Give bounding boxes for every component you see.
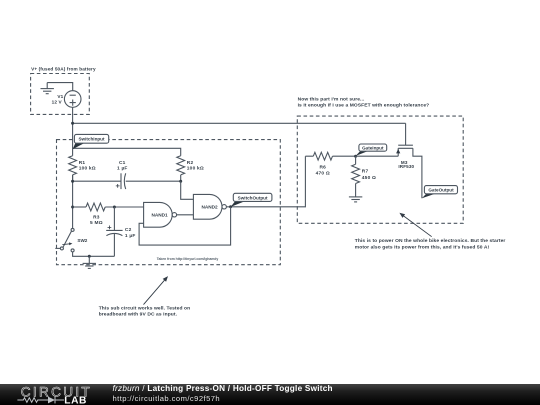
- ground (battery): [41, 83, 54, 94]
- svg-text:12 V: 12 V: [52, 99, 63, 104]
- wire V1 bottom to SW2 (main left rail): [72, 107, 74, 228]
- junction ground rail: [88, 255, 91, 258]
- wire C1 right to R2 bottom: [126, 175, 181, 181]
- flag GateInput: [356, 144, 387, 156]
- wire gate node to M3: [356, 155, 399, 157]
- wire NAND2 output rail to right: [226, 156, 305, 207]
- R3 labels: [90, 214, 103, 226]
- svg-text:R2: R2: [187, 160, 194, 166]
- junction C2 top: [113, 206, 116, 209]
- battery enclosure dashed box: [31, 74, 90, 115]
- svg-text:C1: C1: [119, 160, 126, 166]
- junction gate node: [354, 155, 357, 158]
- resistor R1: [69, 156, 77, 175]
- svg-text:100 kΩ: 100 kΩ: [187, 166, 204, 172]
- SW2 actuation arrow: [62, 242, 72, 245]
- wire C2 top lead: [113, 207, 115, 230]
- nand gate NAND2: [193, 194, 226, 219]
- svg-text:R6: R6: [320, 164, 327, 170]
- capacitor C1: [121, 173, 126, 189]
- R6 labels: [316, 164, 330, 176]
- wire SW2 bottom to ground rail: [73, 252, 115, 256]
- nand gate NAND1: [144, 202, 177, 227]
- annotation bottom left text: [99, 305, 191, 317]
- svg-text:1 µF: 1 µF: [117, 166, 128, 172]
- right sub-circuit dashed box: [297, 116, 463, 223]
- flag GateOutput: [422, 186, 458, 199]
- ground (left box): [83, 256, 96, 268]
- junction R1 bottom: [71, 180, 74, 183]
- svg-text:motor also gets its power from: motor also gets its power from this, and…: [355, 244, 490, 250]
- flag SwitchInput: [73, 134, 109, 149]
- flag SwitchOutput: [231, 193, 272, 207]
- junction R2 bottom: [179, 180, 182, 183]
- resistor R3: [86, 203, 105, 211]
- R1 labels: [79, 160, 96, 172]
- svg-text:100 kΩ: 100 kΩ: [79, 166, 96, 172]
- svg-text:This is to power ON the whole: This is to power ON the whole bike elect…: [355, 238, 506, 244]
- C1 polarity plus: [116, 184, 120, 188]
- annotation bottom left arrow: [144, 276, 169, 305]
- inner top rail wire (SwitchInput net): [73, 148, 181, 155]
- SW2 label: [77, 238, 87, 243]
- wire rail to R3: [73, 206, 86, 208]
- svg-text:1 µF: 1 µF: [125, 233, 136, 239]
- svg-text:Taken from http://tinyurl.com/: Taken from http://tinyurl.com/lghamdy: [157, 257, 219, 261]
- svg-text:IRF530: IRF530: [398, 164, 414, 169]
- taken-from annotation text: [157, 257, 219, 261]
- wire ground to V1 top: [47, 83, 72, 91]
- svg-text:Now this part I'm not sure...: Now this part I'm not sure...: [298, 97, 365, 103]
- svg-text:450 Ω: 450 Ω: [362, 175, 376, 181]
- M3 gate arrow: [396, 149, 400, 154]
- junction top rail: [71, 122, 74, 125]
- V1 value labels: [52, 94, 64, 104]
- battery box title text: [31, 67, 96, 72]
- annotation top right text: [298, 97, 430, 109]
- wire R2 junction to NAND2 upper input: [181, 181, 194, 199]
- left sub-circuit dashed box: [57, 140, 281, 265]
- voltage source V1: [64, 91, 81, 108]
- R7 labels: [362, 169, 376, 181]
- V+ top rail wire: [73, 122, 406, 124]
- footer title text: [113, 385, 333, 393]
- capacitor C2: [106, 230, 122, 235]
- footer url text: [113, 395, 221, 403]
- C1 labels: [117, 160, 128, 172]
- resistor R2: [177, 156, 185, 175]
- wire R3 to NAND1 upper input: [105, 206, 143, 208]
- resistor R7: [352, 156, 360, 197]
- svg-text:NAND1: NAND1: [152, 213, 169, 218]
- svg-text:NAND2: NAND2: [202, 205, 219, 210]
- switch SW2: [55, 228, 74, 252]
- circuitlab logo: [0, 384, 110, 405]
- resistor R6: [305, 152, 355, 160]
- svg-text:GateOutput: GateOutput: [428, 188, 454, 193]
- wire NAND1 output to NAND2 lower input: [177, 214, 194, 216]
- svg-text:470 Ω: 470 Ω: [316, 171, 330, 177]
- svg-text:V1: V1: [57, 94, 63, 99]
- junction R3 row left: [71, 206, 74, 209]
- svg-text:SwitchOutput: SwitchOutput: [238, 195, 268, 200]
- svg-text:Is it enough if I use a MOSFET: Is it enough if I use a MOSFET with enou…: [298, 103, 430, 109]
- M3 labels: [398, 160, 414, 169]
- footer bar: [0, 384, 540, 405]
- R2 labels: [187, 160, 204, 172]
- svg-text:5 MΩ: 5 MΩ: [90, 220, 103, 226]
- svg-text:R1: R1: [79, 160, 86, 166]
- C2 labels: [125, 227, 136, 239]
- annotation bottom right text: [355, 238, 506, 250]
- junction NAND2 output: [229, 205, 232, 208]
- svg-text:This sub circuit works well. T: This sub circuit works well. Tested on: [99, 305, 191, 311]
- annotation bottom right arrow: [399, 213, 431, 237]
- svg-text:R3: R3: [93, 214, 100, 220]
- mosfet M3: [398, 123, 422, 198]
- wire C2 bottom lead: [113, 234, 115, 256]
- wire R1 bottom to C1 row: [73, 175, 121, 181]
- svg-text:R7: R7: [362, 169, 369, 175]
- svg-text:GateInput: GateInput: [362, 146, 384, 151]
- svg-text:C2: C2: [125, 227, 132, 233]
- svg-text:breadboard with 9V DC as input: breadboard with 9V DC as input.: [99, 312, 178, 318]
- ground (right box): [349, 197, 362, 202]
- svg-text:SW2: SW2: [77, 238, 87, 243]
- svg-text:SwitchInput: SwitchInput: [78, 137, 104, 142]
- svg-text:LAB: LAB: [64, 395, 87, 405]
- wire feedback NAND2 output to NAND1 lower input: [139, 207, 231, 245]
- C2 polarity plus: [108, 226, 112, 230]
- svg-text:V+ (fused 50A) from battery: V+ (fused 50A) from battery: [31, 67, 96, 72]
